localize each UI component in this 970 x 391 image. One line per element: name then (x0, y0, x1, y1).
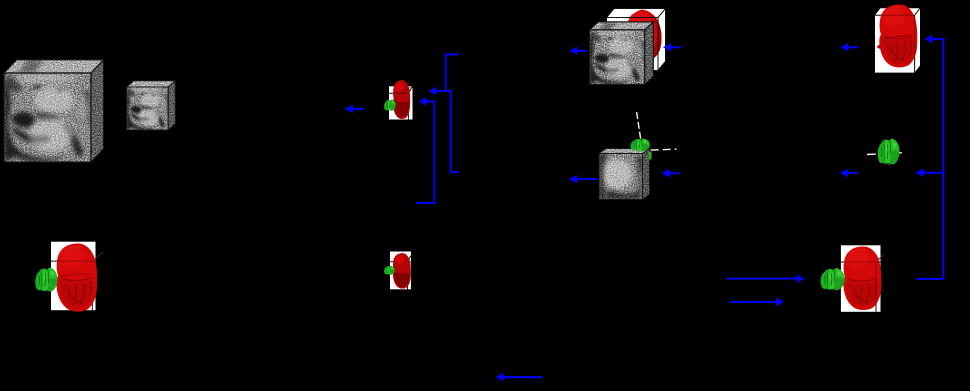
box wireframe lines (389, 92, 408, 94)
cube edge lines (599, 149, 650, 200)
cube edge lines (127, 81, 176, 130)
arrow into fine cube (right) (662, 169, 680, 177)
cube right face (168, 80, 176, 131)
green tumour on top right corner (631, 139, 650, 151)
green tumour left of kidney (821, 268, 845, 290)
green tumour (384, 100, 396, 111)
arrow left of K2 (840, 43, 858, 51)
lower loop arrow: shaft right then down, stub left at bottom (416, 102, 434, 204)
arrow out of fine cube (left) (569, 175, 598, 183)
box wireframe (607, 9, 666, 71)
cube front face (kidney ROI slice) (599, 154, 643, 200)
cube right face (645, 21, 654, 85)
upper loop arrow shaft (436, 90, 446, 92)
big red kidney (877, 4, 918, 67)
wireframe (875, 8, 920, 72)
green tumour left (35, 268, 57, 292)
two arrows pointing right into K5 (727, 274, 805, 306)
faint box edge over kidney (395, 92, 408, 94)
arrow into top-middle group (right) (663, 43, 681, 51)
arrowheads of loop arrows (418, 87, 436, 106)
cube front face (ROI slice) (590, 30, 645, 85)
cube top face (599, 148, 650, 154)
cube right face (643, 148, 650, 200)
small dark red kidney (393, 80, 410, 119)
cube edge lines (590, 22, 654, 85)
cube top face (4, 59, 104, 74)
arrow left of tumour (840, 169, 858, 177)
cube right face (91, 59, 104, 163)
crosshair dashed lines (615, 112, 677, 152)
cube top face (127, 80, 176, 88)
bracket top (446, 55, 458, 92)
cube front face (CT slice) (4, 73, 91, 162)
arrow out of top-middle group (left) (569, 47, 587, 55)
cube edge lines (4, 60, 104, 162)
white viewer box (389, 86, 413, 119)
white box silhouette (607, 9, 666, 71)
cube top face (590, 21, 654, 31)
red kidney inside (mostly hidden by cube) (623, 10, 662, 61)
cube front face (downsampled slice) (127, 87, 169, 130)
right vertical with bottom-right stub (451, 91, 459, 172)
